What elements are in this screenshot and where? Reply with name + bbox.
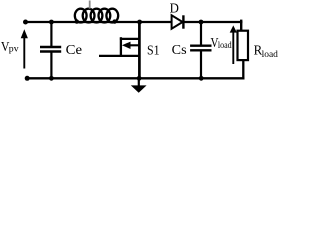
wire right drop to R_load <box>240 20 242 32</box>
node top-left terminal <box>23 20 28 25</box>
resistor R_load (box) <box>238 31 249 60</box>
node Cs top tap <box>199 20 204 25</box>
inductor L (5 loops) <box>75 9 119 24</box>
capacitor Ce <box>40 22 61 78</box>
node bottom-left terminal <box>25 76 30 81</box>
svg-text:pv: pv <box>9 45 19 55</box>
svg-text:load: load <box>218 41 232 51</box>
capacitor Cs <box>190 22 211 78</box>
wire top rail right (cathode side) <box>184 21 243 23</box>
svg-text:Ce: Ce <box>66 43 82 58</box>
V_pv annotation arrow <box>21 29 28 68</box>
node Ce top tap <box>49 20 54 25</box>
source horizontal / gate stub <box>99 55 140 57</box>
node Ce bottom tap <box>49 76 54 81</box>
body arrow <box>127 44 140 46</box>
svg-text:S1: S1 <box>147 43 160 58</box>
diode D <box>172 15 184 28</box>
wire top rail left (anode side) <box>25 21 172 23</box>
wire R_load bottom lead <box>242 60 244 79</box>
svg-text:D: D <box>170 2 179 17</box>
node source tap on bottom rail <box>137 76 142 81</box>
node Cs bottom tap <box>199 76 204 81</box>
node drain tap on top rail <box>137 20 142 25</box>
V_load annotation arrow <box>230 25 237 64</box>
svg-text:load: load <box>262 50 279 60</box>
drain-source vertical line <box>138 22 141 78</box>
stray gray tick above inductor <box>89 1 91 9</box>
wire bottom rail <box>26 77 244 79</box>
ground <box>131 78 147 92</box>
transistor S1 (switch) <box>99 22 140 78</box>
drain horizontal <box>120 38 140 40</box>
svg-text:Cs: Cs <box>172 43 187 58</box>
gate bar <box>120 37 122 57</box>
